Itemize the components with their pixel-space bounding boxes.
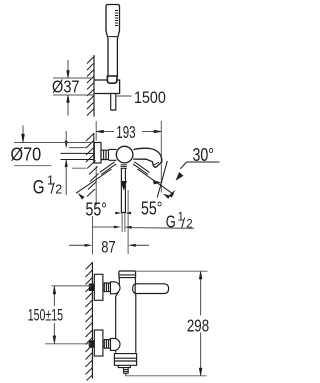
lever joint: [133, 284, 136, 294]
wall (middle view): [93, 133, 95, 164]
spout: [133, 148, 162, 167]
svg-text:30°: 30°: [193, 145, 215, 165]
wall hatching (middle view): [86, 134, 99, 197]
30° ray: [157, 161, 167, 198]
bottom union elbow: [111, 338, 121, 350]
lower neck (bottom view): [118, 365, 130, 367]
leader line 1500: [116, 95, 132, 97]
lever tilted right (55° position): [133, 162, 149, 175]
body cap (bottom view): [119, 271, 136, 278]
connection nut (middle view): [101, 150, 109, 159]
body (bottom view): [116, 278, 136, 353]
shower holder bracket: [94, 80, 120, 94]
shower head face line: [108, 36, 117, 38]
dimension Ø70 extension lines: [14, 143, 94, 166]
55° arcs shared arrow on lever: [121, 181, 127, 191]
top union connector: [103, 285, 104, 289]
svg-text:1500: 1500: [134, 88, 166, 107]
hose stub line: [125, 373, 127, 376]
outlet nipple dimension with G 1/2 leader (right): [93, 227, 195, 228]
55° right ray with arrow: [138, 169, 174, 194]
lever bar (bottom view): [135, 284, 168, 294]
shower hose: [111, 94, 116, 111]
dimension Ø37 extension lines: [53, 78, 94, 95]
dimension 193 extension lines: [96, 121, 161, 206]
svg-text:2: 2: [55, 182, 62, 196]
wall hatching (top view): [87, 57, 94, 116]
dimension 298 line and arrows: [200, 279, 202, 368]
bottom union connector: [103, 342, 104, 346]
top union nut: [104, 283, 110, 292]
55° left ray with arrow: [76, 169, 112, 193]
30° angle arrow right: [163, 194, 170, 199]
30° angle arrow left: [153, 181, 160, 185]
collar block (bottom view): [114, 354, 136, 366]
svg-text:87: 87: [101, 238, 115, 257]
dimension 87 arrows: [85, 244, 136, 247]
shower head spray ticks: [115, 11, 118, 26]
svg-text:/: /: [181, 215, 185, 231]
30° leader with arrow: [180, 162, 186, 169]
small extension lines for connection: [69, 148, 86, 169]
bottom union pipe stub (dark): [89, 340, 95, 348]
dimension 298 extension lines: [127, 271, 208, 376]
svg-text:55°: 55°: [86, 200, 107, 220]
bottom union escutcheon: [94, 330, 103, 356]
svg-text:Ø70: Ø70: [11, 145, 42, 165]
dimension 150±15 extension lines: [45, 286, 92, 344]
svg-text:193: 193: [116, 122, 135, 142]
svg-text:2: 2: [186, 219, 192, 231]
wall hatching (bottom view): [86, 263, 93, 381]
handle knob (middle view): [116, 146, 133, 163]
wall (top view): [93, 55, 95, 117]
top union escutcheon: [94, 274, 103, 300]
dimension Ø37 line and arrows: [67, 60, 69, 116]
hand shower head: [106, 5, 120, 78]
svg-text:298: 298: [187, 316, 209, 336]
pipe lines (left connection): [61, 153, 95, 159]
bottom union nut: [104, 340, 110, 349]
dimension 193 line and arrows: [96, 131, 161, 133]
svg-text:150±15: 150±15: [28, 307, 63, 325]
top union pipe stub (dark): [89, 284, 95, 292]
top union elbow: [111, 282, 121, 294]
outlet stub (bottom view): [124, 368, 129, 374]
svg-text:55°: 55°: [141, 199, 162, 219]
lever tilted left (55° position): [100, 162, 116, 175]
lever collar: [121, 165, 127, 169]
dimension Ø70 arrow: [22, 126, 24, 135]
outlet nipple lines below lever: [122, 213, 125, 233]
escutcheon (middle view): [94, 143, 101, 164]
svg-text:G: G: [166, 212, 176, 232]
lever (hanging down): [121, 168, 125, 212]
svg-text:G: G: [33, 176, 45, 198]
connection dimension arrows: [65, 131, 67, 195]
hand shower handle end in holder: [107, 76, 117, 83]
svg-text:Ø37: Ø37: [52, 77, 80, 97]
dimension 87 extension lines: [93, 190, 129, 255]
dimension 150±15 line and arrows: [53, 294, 55, 336]
wall (bottom view): [91, 262, 93, 379]
spout outlet line: [153, 162, 159, 165]
lever width arrows (pinch row): [115, 212, 131, 215]
mixer body (middle view): [109, 149, 117, 160]
